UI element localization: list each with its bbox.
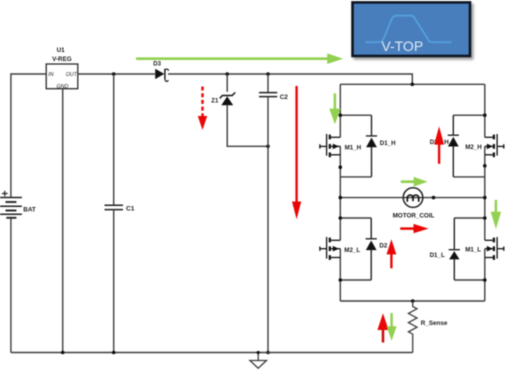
svg-text:M1_H: M1_H <box>345 145 362 152</box>
arrow red up R_Sense <box>377 313 388 342</box>
wire battery to bottom rail <box>10 219 12 353</box>
resistor R_Sense <box>408 301 417 353</box>
wire C2 upper <box>267 74 269 92</box>
junction node C2 tap <box>266 72 270 76</box>
junction node V-TOP feed <box>411 83 415 87</box>
zener diode Z1 <box>220 92 236 105</box>
wire upper-right cell bottom <box>453 176 485 178</box>
diode D1_L <box>449 218 460 280</box>
wire C1 branch upper <box>113 74 115 205</box>
wire lower-right cell top <box>454 217 485 219</box>
transistor M1_H <box>320 134 340 157</box>
wire lower-left cell top <box>340 217 371 219</box>
junction node Z1 tap <box>225 72 229 76</box>
svg-text:Z1: Z1 <box>211 98 219 104</box>
svg-text:D1_H: D1_H <box>380 140 396 147</box>
arrow green down M1_H <box>329 93 340 124</box>
arrow red right motor <box>400 224 428 233</box>
arrow green down M1_L top <box>491 200 501 229</box>
junction node C1 rail <box>112 351 116 355</box>
arrow red up D2_H <box>434 126 444 164</box>
wire Z1 top <box>226 74 228 92</box>
svg-text:V-REG: V-REG <box>52 56 72 63</box>
svg-text:MOTOR_COIL: MOTOR_COIL <box>393 213 435 220</box>
motor MOTOR_COIL <box>403 188 423 208</box>
diode D2_H <box>448 115 459 177</box>
ground <box>250 353 267 369</box>
wire C1 branch lower <box>113 210 115 353</box>
svg-text:M1_L: M1_L <box>465 246 481 253</box>
arrow green supply right <box>136 53 343 64</box>
H-bridge bottom rail <box>340 300 485 302</box>
bottom rail wire <box>11 352 413 354</box>
motor row wire <box>340 197 485 199</box>
diode D1_H <box>366 115 377 177</box>
svg-text:V-TOP: V-TOP <box>381 38 423 54</box>
svg-text:D2: D2 <box>379 243 387 250</box>
wire upper-left cell top <box>340 114 371 116</box>
wire lower-left cell bottom <box>340 279 371 281</box>
junction node R_Sense top <box>411 299 415 303</box>
battery BAT <box>0 191 22 218</box>
svg-text:IN: IN <box>48 72 53 78</box>
svg-text:U1: U1 <box>57 47 66 54</box>
junction node GND rail <box>61 351 65 355</box>
wire upper-left cell bottom <box>340 176 371 178</box>
capacitor C2 <box>259 93 277 97</box>
junction node Z1-C2 <box>266 145 270 149</box>
svg-text:M2_H: M2_H <box>465 144 482 151</box>
arrow red dashed down Z1 <box>198 87 207 131</box>
transistor M2_L <box>320 237 340 260</box>
arrow green right motor <box>401 177 428 187</box>
wire bridge right leg <box>484 84 486 301</box>
wire lower-right cell bottom <box>454 279 485 281</box>
arrow red up D2_L <box>387 239 397 268</box>
svg-text:C2: C2 <box>280 94 289 101</box>
svg-text:M2_L: M2_L <box>344 247 360 254</box>
wire battery to V-REG IN <box>11 74 46 197</box>
arrow green down R_Sense <box>387 313 397 341</box>
junction node C1 tap <box>112 72 116 76</box>
H-bridge top rail <box>340 83 485 85</box>
voltage regulator U1 <box>46 64 78 89</box>
wire bridge left leg <box>339 84 341 301</box>
svg-text:D1_L: D1_L <box>430 252 445 259</box>
transistor M2_H <box>485 134 504 157</box>
wire V-REG OUT to D3 <box>78 73 155 75</box>
V-TOP block <box>353 2 471 56</box>
svg-text:R_Sense: R_Sense <box>421 320 448 327</box>
svg-text:H: H <box>444 139 449 146</box>
wire Z1 bottom to C2 line <box>227 105 268 146</box>
wire main top rail D3 to bridge <box>168 74 412 84</box>
wire upper-right cell top <box>453 114 485 116</box>
junction node C2 bottom <box>266 351 270 355</box>
diode D3 <box>155 69 168 82</box>
junction node motor right <box>432 196 436 200</box>
svg-text:D3: D3 <box>153 61 161 67</box>
wire V-REG GND to bottom rail <box>62 89 64 353</box>
transistor M1_L <box>485 237 504 260</box>
wire C2 lower to bottom rail <box>267 97 269 353</box>
arrow red long down C2 <box>292 86 301 219</box>
svg-text:OUT: OUT <box>66 72 78 78</box>
svg-text:C1: C1 <box>126 206 135 213</box>
svg-text:BAT: BAT <box>23 207 36 214</box>
diode D2_L <box>366 218 377 280</box>
capacitor C1 <box>105 205 124 209</box>
